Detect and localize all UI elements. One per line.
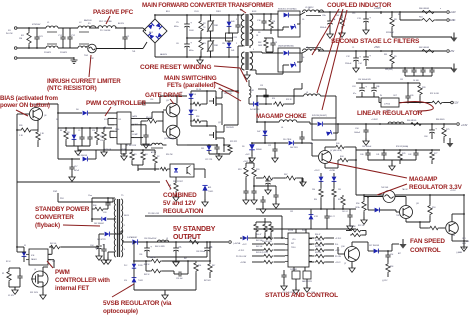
wire 12V gnd bus xyxy=(392,36,452,38)
svg-text:FS1 700V: FS1 700V xyxy=(30,292,39,294)
capacitor C14 xyxy=(363,56,369,58)
thermistor TH1 inrush limiter xyxy=(89,47,95,49)
leader coupled inductor a xyxy=(312,9,339,55)
resistor R27 emitter xyxy=(36,131,40,142)
resistor R54 u7 xyxy=(7,270,11,282)
diode D10 gate xyxy=(189,110,194,115)
ground q9 xyxy=(349,268,355,272)
svg-text:MAGAMP CHOKE: MAGAMP CHOKE xyxy=(256,113,306,120)
bridge rectifier BD1 xyxy=(143,19,167,43)
capacitor C29 3v3 out xyxy=(429,129,435,131)
capacitor C38b xyxy=(324,215,329,217)
ground stby xyxy=(96,256,102,260)
resistor R33 sense5 xyxy=(252,166,256,178)
svg-text:C54: C54 xyxy=(390,254,393,256)
node +5VSB output xyxy=(229,241,232,244)
svg-text:C39: C39 xyxy=(290,211,293,213)
wire to bridge xyxy=(96,27,99,29)
svg-text:R4: R4 xyxy=(145,154,147,156)
svg-text:+5VC: +5VC xyxy=(242,244,247,246)
svg-text:C44: C44 xyxy=(452,235,455,237)
svg-text:D5: D5 xyxy=(302,19,304,21)
node -12V out xyxy=(451,101,454,104)
svg-text:R3a: R3a xyxy=(338,199,341,201)
wire right vertical xyxy=(463,195,465,249)
resistor R40a xyxy=(335,145,346,149)
capacitor C37 mesh xyxy=(273,194,278,196)
resistor R35 mesh xyxy=(285,176,297,180)
ground opto xyxy=(173,197,179,201)
svg-text:C03: C03 xyxy=(103,212,106,214)
svg-text:+5VSB: +5VSB xyxy=(329,170,336,172)
svg-text:C34: C34 xyxy=(355,128,358,130)
ground mesh3 xyxy=(273,204,279,208)
svg-text:IN LOW: IN LOW xyxy=(6,33,13,35)
node +5V output xyxy=(447,50,450,53)
capacitor C18 mesh xyxy=(87,136,92,138)
diode D12b xyxy=(326,130,332,136)
resistor R12 mesh xyxy=(64,130,68,141)
wire fet gate bus xyxy=(191,90,216,92)
leader standby xyxy=(63,225,100,226)
transformer T5 standby xyxy=(114,199,116,257)
svg-text:VD33: VD33 xyxy=(121,149,126,151)
diode D15 trim xyxy=(289,141,294,146)
svg-text:R48 1K: R48 1K xyxy=(144,264,150,266)
ground row2 xyxy=(389,166,395,170)
wire sb feedback drop xyxy=(133,242,135,261)
resistor R14 drive xyxy=(146,119,158,123)
node AC line input L xyxy=(14,27,17,30)
wire 5v secondary rail xyxy=(252,142,288,144)
ground t5 xyxy=(105,260,111,264)
capacitor C35 sense xyxy=(243,190,248,192)
resistor R41 sup xyxy=(263,242,274,245)
svg-text:CN1: CN1 xyxy=(466,241,469,243)
svg-text:D6: D6 xyxy=(302,57,304,59)
ground earth chassis xyxy=(73,57,75,60)
svg-text:power ON button): power ON button) xyxy=(0,102,50,109)
svg-text:MAGAMP: MAGAMP xyxy=(409,176,438,183)
wire ic top pins xyxy=(295,229,297,233)
leader coupled inductor b xyxy=(317,9,343,93)
svg-text:C26: C26 xyxy=(410,95,413,97)
svg-text:C27 C28: C27 C28 xyxy=(205,159,212,161)
capacitor C48 sb xyxy=(204,247,210,249)
svg-text:CONTROL: CONTROL xyxy=(410,247,441,254)
svg-text:Q8: Q8 xyxy=(44,115,46,117)
ground primary xyxy=(197,60,203,64)
capacitor C33 snub xyxy=(105,202,110,204)
wire T1 pins xyxy=(250,13,256,15)
wire regulator out xyxy=(378,97,380,103)
resistor R39b xyxy=(341,196,345,207)
ground 12v filled xyxy=(451,38,458,42)
ground c50 xyxy=(265,190,271,194)
resistor R42 sup xyxy=(263,248,274,251)
wire coupled core xyxy=(306,15,321,17)
svg-text:+5VSB: +5VSB xyxy=(240,262,247,264)
resistor R16 gate xyxy=(192,119,202,123)
svg-text:C14: C14 xyxy=(100,140,103,142)
svg-text:PWM: PWM xyxy=(55,269,70,276)
svg-text:5VSB REGULATOR (via: 5VSB REGULATOR (via xyxy=(103,300,172,307)
capacitor C10 snubber xyxy=(261,20,266,22)
ground sec xyxy=(272,158,278,162)
capacitor C43 fan xyxy=(385,254,390,256)
svg-text:Q4 2N90FA: Q4 2N90FA xyxy=(164,137,175,140)
diode D6b xyxy=(290,62,296,68)
svg-text:2SK2645: 2SK2645 xyxy=(226,127,234,129)
ic U6 supervisor WT7510 xyxy=(288,233,309,267)
svg-text:ZNR: ZNR xyxy=(214,25,219,27)
resistor R17 clamp xyxy=(228,145,232,154)
svg-text:R26: R26 xyxy=(19,125,22,127)
svg-text:SEL91: SEL91 xyxy=(124,215,129,217)
svg-text:R21 R22: R21 R22 xyxy=(230,141,237,143)
resistor R44a xyxy=(339,158,350,162)
wire fb net xyxy=(196,260,210,262)
svg-text:C30 1000uF/16V: C30 1000uF/16V xyxy=(358,79,372,81)
resistor R32 sense12 xyxy=(244,166,248,178)
svg-text:R53: R53 xyxy=(432,207,435,209)
svg-text:C70: C70 xyxy=(178,247,181,249)
wire magamp drop xyxy=(256,96,258,122)
svg-text:ZD1: ZD1 xyxy=(338,189,341,191)
svg-text:D62 1N4007: D62 1N4007 xyxy=(94,223,104,225)
resistor R34b cluster xyxy=(269,223,273,233)
svg-text:C36: C36 xyxy=(139,254,142,256)
resistor R56 fb xyxy=(150,259,162,263)
capacitor C30 row2 xyxy=(365,152,370,154)
svg-text:+5V: +5V xyxy=(450,50,455,53)
leader pwm fet xyxy=(47,261,53,268)
svg-text:STATUS AND CONTROL: STATUS AND CONTROL xyxy=(265,292,338,299)
wire q8 net xyxy=(405,219,407,223)
svg-text:7500: 7500 xyxy=(115,129,119,131)
wire drain bus xyxy=(222,90,238,92)
wire zener bus xyxy=(320,205,322,209)
diode D5a xyxy=(284,13,289,18)
resistor R66 fan fb a xyxy=(350,229,362,232)
wire pwm gate pin xyxy=(131,117,152,119)
svg-text:Q10: Q10 xyxy=(341,246,345,248)
wire inter xyxy=(264,37,273,39)
diode D4 core reset xyxy=(254,102,259,107)
svg-text:Q1: Q1 xyxy=(34,269,36,271)
svg-text:47N250V: 47N250V xyxy=(32,24,41,26)
svg-text:C07: C07 xyxy=(52,261,55,263)
inductor L3 PFC choke xyxy=(98,26,116,28)
transformer T1 lower winding xyxy=(241,52,244,70)
svg-text:R67: R67 xyxy=(184,258,187,260)
svg-text:CONTROLLER with: CONTROLLER with xyxy=(55,277,110,284)
resistor R32b cluster xyxy=(254,223,258,233)
svg-text:a: a xyxy=(440,8,441,10)
wire cluster bottom xyxy=(256,237,271,239)
resistor R23 row2 xyxy=(430,151,434,161)
wire q7 net xyxy=(324,147,326,151)
svg-text:CN1: CN1 xyxy=(462,238,466,240)
svg-text:+3.3VC: +3.3VC xyxy=(238,250,245,252)
svg-text:R30: R30 xyxy=(310,143,313,145)
svg-text:L3: L3 xyxy=(306,92,308,94)
svg-text:-12V: -12V xyxy=(454,103,459,105)
svg-text:D1: D1 xyxy=(24,245,26,247)
ground r35 mesh xyxy=(300,182,306,186)
svg-text:C13: C13 xyxy=(352,13,355,15)
ic rectifier pack D6 SB0260 xyxy=(278,48,300,72)
wire reset return xyxy=(293,89,295,104)
ground T1 shield xyxy=(246,71,248,74)
capacitor C23 sec xyxy=(299,136,304,138)
wire diode pack io xyxy=(309,122,311,124)
ground sup xyxy=(293,290,299,294)
svg-text:GND: GND xyxy=(450,19,456,22)
wire bias row2 xyxy=(57,128,59,159)
ground c45 xyxy=(101,260,107,264)
svg-text:R60 10 1/8W: R60 10 1/8W xyxy=(155,246,165,248)
capacitor C17 mesh xyxy=(79,136,84,138)
node GND output xyxy=(447,19,450,22)
svg-text:(flyback): (flyback) xyxy=(35,222,60,229)
capacitor C41 sup xyxy=(281,274,286,276)
resistor R53 u7 top xyxy=(49,245,61,249)
ground c51 xyxy=(260,209,266,213)
svg-text:R76 DR(1000A): R76 DR(1000A) xyxy=(396,145,408,148)
svg-text:C9: C9 xyxy=(78,130,80,132)
svg-text:COMBINED: COMBINED xyxy=(163,192,197,199)
transistor Q8 fan driver xyxy=(400,206,413,219)
wire 3v3 row2 xyxy=(356,149,440,151)
resistor R58 fb xyxy=(194,262,198,273)
wire u7 drive xyxy=(48,253,52,255)
svg-text:R23 2K: R23 2K xyxy=(286,99,293,101)
leader combined xyxy=(166,180,171,189)
capacitor C19 aux xyxy=(69,166,74,168)
resistor R30 opto in xyxy=(160,167,169,170)
capacitor C22 clamp xyxy=(214,146,219,148)
svg-text:R60 0R005: R60 0R005 xyxy=(407,120,416,122)
svg-text:R44: R44 xyxy=(340,156,343,158)
svg-text:R05 100: R05 100 xyxy=(50,243,56,245)
svg-text:R29 10.10K: R29 10.10K xyxy=(430,93,440,95)
ground sb xyxy=(173,262,179,266)
svg-text:R8: R8 xyxy=(60,130,62,132)
svg-text:L7912: L7912 xyxy=(384,104,391,106)
svg-text:L2: L2 xyxy=(306,47,308,49)
wire pwm bottom xyxy=(120,144,122,154)
svg-text:C42: C42 xyxy=(408,154,411,156)
capacitor C49 fb xyxy=(178,271,180,276)
svg-text:D10 7R04: D10 7R04 xyxy=(283,139,291,141)
svg-text:3: 3 xyxy=(253,29,254,31)
svg-text:C31: C31 xyxy=(400,79,403,81)
resistor R34 mesh xyxy=(262,176,274,180)
leader fets b xyxy=(219,88,241,101)
current transformer T3 xyxy=(152,143,163,145)
wire mesh2 xyxy=(301,178,303,186)
svg-text:C40 1000uF: C40 1000uF xyxy=(362,146,371,148)
node AC line input N xyxy=(14,47,17,50)
wire T1 primary bottom xyxy=(238,45,243,47)
svg-text:R43 4K (N CPU): R43 4K (N CPU) xyxy=(256,252,268,254)
leader gate drive xyxy=(170,99,174,104)
svg-text:8: 8 xyxy=(124,249,125,251)
wire gate drive top xyxy=(152,102,160,104)
svg-text:(NTC RESISTOR): (NTC RESISTOR) xyxy=(47,85,97,92)
svg-text:Q11: Q11 xyxy=(416,203,419,205)
resistor R24 startup a xyxy=(130,151,134,161)
svg-text:SB560: SB560 xyxy=(256,149,262,151)
diode D22 standby out xyxy=(132,239,137,244)
ground fb xyxy=(162,295,168,299)
wire q11 net xyxy=(42,267,44,270)
svg-text:C1an: C1an xyxy=(88,195,92,197)
svg-text:COMP: COMP xyxy=(132,134,138,136)
diode D11 clamp xyxy=(207,146,212,151)
capacitor C9 inter xyxy=(270,42,275,44)
wire bridge DC- rail xyxy=(154,43,156,57)
thermistor TH2 fan sensor xyxy=(383,191,395,203)
ground xyxy=(339,33,345,37)
wire -12v row xyxy=(399,12,401,20)
svg-text:SCP OK: SCP OK xyxy=(104,149,112,151)
resistor R5 snubber xyxy=(226,33,233,41)
svg-text:R37 100: R37 100 xyxy=(315,240,321,242)
resistor R63 sense +5V xyxy=(420,49,436,52)
capacitor C11 xyxy=(327,20,333,22)
leader 5vsb reg xyxy=(112,284,134,297)
svg-text:7545: 7545 xyxy=(396,215,400,217)
svg-text:D60 STPR: D60 STPR xyxy=(97,239,106,241)
transistor Q7 magamp ctrl xyxy=(319,151,332,164)
wire rect pack 1 xyxy=(256,13,278,15)
ground xyxy=(353,68,359,72)
svg-text:R56 1K: R56 1K xyxy=(350,226,357,228)
svg-text:B57: B57 xyxy=(398,253,401,255)
svg-text:C36 2200uF/10V: C36 2200uF/10V xyxy=(144,238,157,240)
ic rectifier pack D5 S40D45C xyxy=(278,11,300,37)
ground pwm xyxy=(121,156,127,160)
capacitor C7 snubber xyxy=(235,24,240,26)
capacitor C32 row2 xyxy=(413,152,418,154)
ground u7 xyxy=(12,290,18,294)
ground cn1 xyxy=(461,247,467,251)
diode D6 bias xyxy=(83,111,88,116)
capacitor C5 bulk xyxy=(184,23,190,25)
wire row2 gnd xyxy=(368,159,416,161)
svg-text:PASSIVE PFC: PASSIVE PFC xyxy=(93,9,134,16)
snubber loop standby xyxy=(91,198,93,222)
svg-text:D6(D61A SB0260): D6(D61A SB0260) xyxy=(278,45,294,48)
svg-text:1000uF: 1000uF xyxy=(354,132,361,134)
svg-text:+5VC: +5VC xyxy=(374,47,380,49)
wire q9 net xyxy=(338,253,345,255)
wire sense mesh xyxy=(254,185,276,187)
leader pwm controller xyxy=(105,107,111,116)
capacitor C12 xyxy=(353,57,359,59)
ground 3v3 filled xyxy=(447,143,454,147)
svg-text:optocouple): optocouple) xyxy=(103,308,138,315)
svg-text:IC31: IC31 xyxy=(314,216,318,218)
diode BD1-D1 xyxy=(148,23,155,30)
svg-text:PS ON LOW: PS ON LOW xyxy=(148,213,159,215)
svg-text:047uF: 047uF xyxy=(74,170,80,172)
svg-text:C1: C1 xyxy=(352,47,354,49)
wire opto left xyxy=(137,169,139,171)
capacitor C45 aux stby xyxy=(101,248,106,250)
svg-text:D41: D41 xyxy=(231,50,234,52)
capacitor C47 sb xyxy=(173,247,179,249)
capacitor C13 xyxy=(363,18,369,20)
svg-text:PFC CHOKE: PFC CHOKE xyxy=(99,21,112,23)
svg-text:R58: R58 xyxy=(390,266,393,268)
diode D2 snubber xyxy=(227,22,232,27)
svg-text:+12VC: +12VC xyxy=(240,238,246,240)
svg-text:REGULATION: REGULATION xyxy=(163,208,204,215)
wire gate drive mid xyxy=(176,116,178,126)
wire 5v gnd bus xyxy=(366,67,452,69)
ground mesh2 xyxy=(101,152,107,156)
svg-text:REGULATOR 3.3V: REGULATOR 3.3V xyxy=(409,184,463,191)
resistor R38 zener xyxy=(319,188,323,198)
svg-text:R77: R77 xyxy=(434,153,437,155)
wire T1 primary top xyxy=(242,14,244,15)
svg-text:D8: D8 xyxy=(67,132,69,134)
wire pwm left pins xyxy=(108,117,114,119)
wire sb gnd row xyxy=(147,256,207,258)
svg-text:(-)12V: (-)12V xyxy=(382,280,388,282)
svg-text:10W: 10W xyxy=(258,45,262,47)
wire bias vertical left xyxy=(16,114,18,252)
wire bias to pwm xyxy=(104,112,117,114)
svg-text:C25: C25 xyxy=(376,86,379,88)
svg-text:5R1(3W): 5R1(3W) xyxy=(385,69,393,71)
resistor R10 reset xyxy=(273,102,285,106)
svg-text:R75: R75 xyxy=(446,129,449,131)
capacitor C25 aux xyxy=(359,87,365,89)
wire sense top xyxy=(246,162,254,164)
svg-text:+3.3VC: +3.3VC xyxy=(335,238,342,240)
varistor VR1 xyxy=(208,21,213,31)
svg-text:R49 1K: R49 1K xyxy=(144,274,150,276)
svg-text:R60 0R005: R60 0R005 xyxy=(419,8,430,10)
svg-text:+12V: +12V xyxy=(450,11,456,14)
svg-text:+12VC: +12VC xyxy=(314,170,320,172)
svg-text:TL431: TL431 xyxy=(138,280,143,282)
svg-text:C41: C41 xyxy=(376,154,379,156)
ground arrow fan bold xyxy=(399,244,406,249)
resistor R46 sup xyxy=(315,242,326,245)
node +5VC xyxy=(380,50,382,52)
svg-text:BD1: BD1 xyxy=(166,11,170,13)
transistor Q8 bias xyxy=(30,108,43,121)
svg-text:4A/600V: 4A/600V xyxy=(160,53,168,56)
wire cluster top xyxy=(256,221,271,223)
capacitor C15 xyxy=(402,69,407,71)
svg-text:PW1: PW1 xyxy=(60,198,64,200)
node +12V output xyxy=(447,11,450,14)
ground tl431 xyxy=(202,202,208,206)
diode ZD2 zener xyxy=(332,177,337,182)
wire hv rail to standby xyxy=(17,181,160,183)
wire sense bus b xyxy=(256,228,356,230)
ground sb560 xyxy=(249,158,255,162)
ground aux xyxy=(69,177,75,181)
svg-text:D9 1N: D9 1N xyxy=(196,89,202,91)
svg-text:COUPLED INDUCTOR: COUPLED INDUCTOR xyxy=(327,2,392,9)
